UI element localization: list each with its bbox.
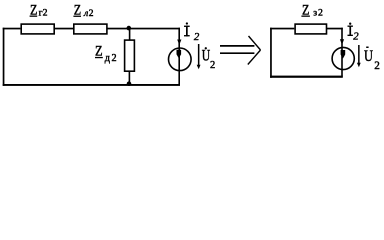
svg-text:з2: з2 (313, 8, 324, 19)
arrowhead: current direction I2 on branch (right) (340, 39, 344, 45)
wire: right circuit top side, left corner to Zз2 (270, 28, 294, 30)
node: top junction dot (127, 26, 132, 31)
svg-text:2: 2 (374, 60, 380, 72)
label Z_г2 (30, 2, 48, 18)
wire: stub from top wire down to Zд2 (129, 29, 131, 40)
node: bottom junction dot (127, 81, 132, 86)
arrowhead: current direction I2 on branch (left) (177, 40, 181, 46)
equivalence arrow => (220, 36, 261, 65)
wire: Zз2 to top-right corner of right circuit (327, 28, 343, 30)
svg-text:2: 2 (353, 30, 359, 42)
current source I2 (left circuit) (169, 48, 192, 71)
svg-text:л2: л2 (83, 8, 94, 19)
resistor Zз2 (295, 24, 326, 34)
label Z_з2 (301, 3, 324, 19)
resistor Zг2 (21, 24, 54, 34)
svg-text:2: 2 (210, 60, 215, 71)
svg-text:U: U (364, 48, 373, 65)
svg-text:д2: д2 (105, 53, 118, 64)
label U̇2 (right) (364, 47, 380, 72)
resistor Zл2 (74, 24, 107, 34)
wire: left circuit left vertical side (3, 28, 5, 86)
label İ2 (right) (348, 23, 360, 43)
wire: right circuit bottom side (270, 76, 343, 78)
wire: stub from Zд2 down to bottom wire (129, 71, 131, 84)
resistor Zд2 (vertical) (125, 40, 135, 71)
wire: left circuit bottom side (3, 84, 180, 86)
wire: right circuit left vertical side (270, 28, 272, 78)
label İ2 (left) (184, 22, 200, 43)
wire: Zл2 to top-right corner of left circuit (107, 28, 180, 30)
label U̇2 (left) (202, 47, 216, 71)
voltage arrow U2 (left) (197, 44, 201, 69)
svg-text:г2: г2 (39, 8, 48, 19)
wire: current source branch vertical (left circuit) (178, 28, 180, 85)
wire: between Zг2 and Zл2 (54, 28, 74, 30)
wire: current source branch vertical (right circuit) (341, 28, 343, 77)
svg-text:Z: Z (95, 43, 103, 59)
current source I2 (right circuit) (332, 47, 354, 69)
label Z_д2 (95, 43, 118, 64)
voltage arrow U2 (right) (357, 45, 361, 67)
label Z_л2 (73, 3, 94, 19)
svg-text:2: 2 (194, 31, 200, 43)
wire: left circuit top side, left corner to R1 (3, 28, 21, 30)
